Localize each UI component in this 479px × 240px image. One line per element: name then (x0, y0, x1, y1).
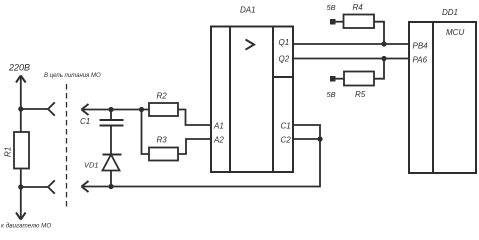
node R5 junction (381, 56, 386, 61)
svg-text:C2: C2 (281, 136, 292, 145)
optocoupler DA1 (211, 27, 293, 173)
connector contact bottom-left (48, 180, 55, 193)
symbol comparator (246, 40, 255, 50)
wire R5 to PA6 rail (374, 59, 384, 79)
wire junction to R1 (20, 109, 22, 132)
wire top rail to C1 (110, 110, 112, 121)
resistor R4 (344, 15, 375, 29)
svg-text:MCU: MCU (446, 28, 464, 37)
wire Q2 to PA6 (293, 58, 409, 60)
wire C2 out (293, 138, 320, 140)
connector contact top-left (48, 102, 55, 115)
arrow up 220V (16, 76, 26, 110)
svg-text:5В: 5В (327, 3, 336, 12)
wire R1 to bottom junction (20, 169, 22, 188)
capacitor C1 (100, 120, 124, 126)
svg-text:R1: R1 (4, 147, 13, 157)
svg-text:A2: A2 (213, 136, 224, 145)
wire top rail (82, 109, 150, 111)
node C2 junction (317, 136, 322, 141)
wire R3 to A2 (178, 139, 211, 154)
resistor R5 (344, 72, 374, 86)
resistor R1 (14, 132, 29, 169)
node VD1 bottom (108, 184, 113, 189)
wire bottom rail (82, 139, 321, 187)
arrow left power top (82, 104, 89, 115)
svg-text:R4: R4 (353, 3, 364, 12)
boundary dashed line (66, 84, 68, 210)
wire VD1 to bottom rail (110, 171, 112, 187)
svg-text:220В: 220В (8, 63, 30, 73)
wire 5V terminal to R4 (336, 21, 344, 23)
svg-text:VD1: VD1 (84, 161, 99, 170)
svg-text:Q2: Q2 (279, 55, 290, 64)
svg-text:DA1: DA1 (240, 6, 256, 15)
wire Q1 to PB4 (293, 43, 409, 45)
node C1 top (108, 107, 113, 112)
svg-text:PB4: PB4 (413, 42, 429, 51)
wire R4 to PB4 rail (374, 22, 384, 44)
svg-text:C1: C1 (281, 122, 291, 131)
svg-text:R5: R5 (355, 90, 366, 99)
node top-left junction (18, 106, 23, 111)
wire stub to top-left connector (21, 108, 48, 110)
svg-text:A1: A1 (213, 122, 224, 131)
wire 5V terminal to R5 (336, 78, 345, 80)
node R3 branch (139, 107, 144, 112)
wire C1 to VD1 (110, 126, 112, 155)
arrow left power bottom (82, 181, 89, 192)
svg-text:R3: R3 (157, 135, 168, 144)
svg-text:5В: 5В (327, 90, 336, 99)
wire stub to bottom-left connector (21, 186, 48, 188)
wire R2 to A1 (178, 110, 211, 126)
svg-text:C1: C1 (80, 117, 90, 126)
svg-text:Q1: Q1 (279, 38, 290, 47)
resistor R2 (149, 103, 178, 116)
resistor R3 (149, 148, 178, 161)
node R4 junction (381, 41, 386, 46)
svg-text:PA6: PA6 (413, 56, 428, 65)
wire branch to R3 (142, 110, 150, 155)
svg-text:к двигателю МО: к двигателю МО (1, 222, 51, 230)
diode VD1 (103, 155, 122, 171)
arrow down to motor (16, 187, 26, 220)
terminal 5V top (330, 19, 336, 25)
svg-text:DD1: DD1 (442, 8, 458, 17)
MCU DD1 (409, 22, 476, 173)
wire C1 out (293, 125, 320, 139)
terminal 5V bottom (330, 76, 336, 82)
svg-text:В цепь питания МО: В цепь питания МО (44, 73, 101, 79)
node bottom-left junction (18, 184, 23, 189)
svg-text:R2: R2 (157, 92, 168, 101)
